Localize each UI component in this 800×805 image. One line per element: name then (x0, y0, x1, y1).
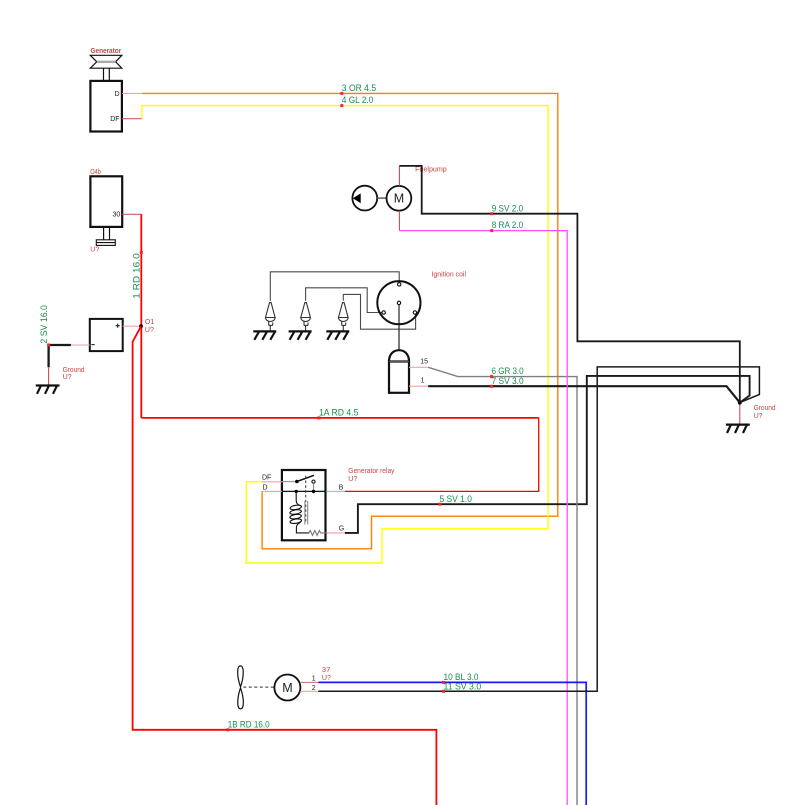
fan pin 1 stub (300, 681, 318, 683)
svg-text:M: M (394, 192, 404, 206)
label 3 OR 4.5 (340, 92, 343, 95)
svg-text:37: 37 (322, 667, 331, 674)
svg-text:DF: DF (110, 116, 119, 123)
svg-text:U?: U? (63, 374, 72, 381)
relay switch lever (297, 475, 314, 481)
svg-text:3 OR 4.5: 3 OR 4.5 (342, 83, 376, 94)
relay coil feed bottom (296, 523, 309, 533)
wire 6 GR 3.0 gray coil 15 to bottom (428, 367, 577, 805)
spark plug 2 (301, 303, 311, 332)
pin + stub (123, 325, 140, 327)
pin D stub (122, 92, 142, 94)
wire 2 SV 16.0 black battery minus to ground (49, 345, 71, 367)
wire 1 RD 16.0 red battery 30 down to node O1 (140, 214, 142, 418)
fuel pump motor M (387, 186, 412, 211)
svg-text:O1: O1 (145, 319, 155, 326)
svg-text:U?: U? (90, 246, 99, 253)
relay body (282, 470, 326, 540)
spark plug 1 (266, 303, 276, 332)
spark plug 2 ground (289, 331, 312, 339)
fan propeller (238, 666, 244, 709)
label 7 SV 3.0 (490, 385, 493, 388)
ground node junction dot right (738, 401, 742, 405)
wire 7 SV 3.0 black coil 1 to ground node (428, 386, 740, 402)
svg-text:9 SV 2.0: 9 SV 2.0 (492, 203, 524, 214)
svg-text:1: 1 (421, 378, 425, 385)
fuel pump stub up (398, 166, 400, 186)
wire spark plug 1 to distributor top (270, 272, 399, 301)
svg-text:B: B (339, 485, 344, 492)
node O1 junction dot (139, 324, 143, 328)
fan motor M (274, 675, 300, 701)
label 8 RA 2.0 (490, 229, 493, 232)
distributor body (377, 281, 420, 324)
svg-text:U?: U? (145, 327, 154, 334)
relay pin D stub (262, 490, 282, 492)
ground stub left (48, 367, 50, 385)
pin + label (116, 324, 120, 328)
svg-text:8 RA 2.0: 8 RA 2.0 (492, 220, 524, 231)
fan link dashed (243, 686, 274, 688)
svg-text:11 SV 3.0: 11 SV 3.0 (444, 682, 482, 693)
wire spark plug 3 to distributor right (343, 294, 415, 329)
spark plug 3 (339, 303, 349, 332)
svg-text:U?: U? (348, 476, 357, 483)
relay pin DF stub (263, 481, 282, 483)
svg-text:D: D (115, 91, 120, 98)
svg-text:Generator relay: Generator relay (348, 468, 395, 475)
pin - stub (71, 344, 90, 346)
svg-text:DF: DF (262, 475, 271, 482)
svg-text:2 SV 16.0: 2 SV 16.0 (39, 305, 50, 344)
svg-text:7 SV 3.0: 7 SV 3.0 (492, 376, 524, 387)
battery O4b pedestal (96, 227, 115, 246)
svg-text:Ground: Ground (63, 367, 85, 374)
ground stub right (739, 405, 741, 425)
svg-text:1B RD 16.0: 1B RD 16.0 (228, 719, 270, 730)
svg-text:4 GL 2.0: 4 GL 2.0 (342, 95, 374, 106)
ground symbol right (726, 425, 750, 433)
distributor terminal top (398, 283, 401, 286)
relay switch terminal circle (312, 480, 315, 483)
svg-text:U?: U? (322, 675, 331, 682)
label 1B RD 16.0 (226, 728, 229, 731)
svg-text:1: 1 (312, 675, 316, 682)
ground symbol left (36, 386, 60, 394)
relay coil loops (290, 504, 302, 524)
relay junction dot right (312, 490, 315, 493)
wire distributor center to coil (398, 305, 400, 351)
svg-text:15: 15 (420, 359, 428, 366)
label 10 BL 3.0 (442, 681, 445, 684)
wire 1B RD 16.0 red node O1 to bottom (133, 326, 437, 805)
generator pulley (90, 55, 122, 68)
battery O4b body (90, 176, 122, 227)
coil pin 15 stub (409, 366, 428, 368)
label 6 GR 3.0 (490, 375, 493, 378)
wire 8 RA 2.0 magenta fuel pump to bottom (399, 231, 567, 805)
generator body U? (90, 81, 122, 132)
relay pin G stub (326, 532, 345, 534)
fan pin 2 stub (300, 690, 318, 692)
wire 3 OR 4.5 orange generator D to relay D (142, 93, 558, 548)
wire 11 SV 3.0 black fan 2 to ground node (318, 367, 759, 691)
fuel pump link (377, 197, 386, 199)
svg-text:G: G (339, 525, 344, 532)
pin - label (91, 344, 94, 346)
relay junction dot left (295, 490, 298, 493)
svg-text:30: 30 (113, 212, 121, 219)
ignition coil body (389, 350, 409, 393)
svg-text:Ignition coil: Ignition coil (432, 271, 467, 278)
svg-text:Ground: Ground (754, 405, 776, 412)
relay coil core (305, 501, 308, 525)
wire 5 SV 1.0 black relay G to ground node (345, 376, 750, 533)
spark plug 1 ground (253, 331, 276, 339)
relay coil feed top (296, 491, 300, 505)
svg-text:1A RD 4.5: 1A RD 4.5 (319, 408, 358, 419)
svg-text:Generator: Generator (91, 48, 122, 55)
label 1A RD 4.5 (318, 416, 321, 419)
wire 4 GL 2.0 yellow generator DF to relay DF (142, 106, 548, 563)
wire 10 BL 3.0 blue fan 1 to bottom (318, 682, 586, 805)
label 4 GL 2.0 (340, 104, 343, 107)
label 2 SV 16.0 (47, 344, 50, 347)
distributor terminal center (397, 301, 400, 304)
relay switch contact dot (295, 480, 299, 484)
label 1 RD 16.0 (140, 251, 143, 254)
spark plug 3 ground (326, 331, 349, 339)
wire 1A RD 4.5 red node O1 to relay B (141, 417, 538, 419)
relay pin B stub (326, 490, 345, 492)
svg-text:5 SV 1.0: 5 SV 1.0 (440, 494, 472, 505)
pin DF stub (122, 118, 142, 120)
battery O1 body (90, 319, 123, 351)
fuel pump stub down (398, 211, 400, 231)
svg-text:O4b: O4b (90, 169, 101, 176)
coil pin 1 stub (409, 385, 428, 387)
svg-text:M: M (282, 681, 292, 695)
distributor terminal right (413, 311, 416, 314)
relay mechanical link dashed (305, 476, 307, 524)
distributor terminal left (382, 311, 385, 314)
fuel pump body (352, 186, 377, 211)
wire spark plug 2 to distributor left (306, 288, 382, 313)
svg-text:U?: U? (754, 413, 763, 420)
label 11 SV 3.0 (442, 690, 445, 693)
relay switch terminal link (313, 483, 315, 490)
fuel pump triangle (353, 193, 361, 203)
svg-text:D: D (263, 484, 268, 491)
svg-text:Fuelpump: Fuelpump (415, 166, 447, 173)
wire 9 SV 2.0 black fuel pump to ground node (399, 166, 739, 403)
relay resistor (309, 531, 326, 536)
svg-text:1 RD 16.0: 1 RD 16.0 (132, 253, 143, 299)
label 5 SV 1.0 (438, 503, 441, 506)
label 9 SV 2.0 (490, 212, 493, 215)
relay D internal bus (282, 490, 326, 492)
pin 30 stub (122, 213, 141, 215)
relay DF internal lead (282, 481, 297, 483)
generator shaft (104, 68, 110, 81)
